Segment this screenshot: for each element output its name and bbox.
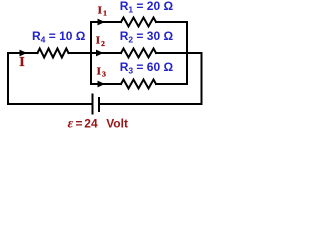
resistor R1 [121, 18, 156, 27]
wire: inner right vertical (node B) [186, 22, 188, 84]
battery positive plate (long) [92, 95, 94, 114]
current arrow I2 [96, 50, 104, 57]
wire: left loop (top-left corner, left vertical, bottom-left) [8, 53, 92, 104]
wire: branch 2 right segment [156, 52, 202, 54]
wire: branch 3 right segment [156, 83, 187, 85]
wire: branch 1 right segment [156, 21, 187, 23]
resistor R2 [121, 49, 156, 58]
battery negative plate (short) [98, 98, 100, 111]
wire: left junction vertical (node A) [90, 22, 92, 84]
resistor R4 [38, 49, 69, 58]
resistor R3 [121, 80, 156, 89]
wire: branch 3 left segment [91, 83, 121, 85]
svg-text:R3 = 60 Ω: R3 = 60 Ω [120, 60, 174, 76]
wire: branch 2 left segment [91, 52, 121, 54]
wire: R4 to left junction node [69, 52, 92, 54]
svg-text:R4 = 10 Ω: R4 = 10 Ω [32, 29, 86, 45]
wire: right outer vertical and bottom-right [100, 53, 202, 104]
svg-text:I: I [19, 55, 24, 70]
current arrow I3 [98, 81, 106, 88]
svg-text:R1 = 20 Ω: R1 = 20 Ω [120, 0, 174, 15]
wire: branch 1 left segment [91, 21, 121, 23]
current arrow I [20, 50, 28, 57]
svg-text:R2 = 30 Ω: R2 = 30 Ω [120, 29, 174, 45]
current arrow I1 [98, 19, 106, 26]
